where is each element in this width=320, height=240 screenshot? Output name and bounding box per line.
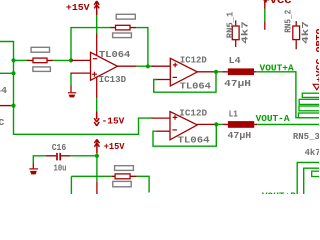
wire op3 feedback loop	[153, 124, 216, 146]
svg-text:L1: L1	[229, 108, 238, 119]
wire C16 to +15V junction	[70, 155, 97, 157]
inductor L1 leads	[223, 123, 258, 125]
resistor bottom R body	[115, 174, 130, 179]
resistor gray outline below bottom R	[113, 181, 131, 186]
svg-text:VOUT-A: VOUT-A	[256, 113, 290, 124]
pin op2 inverting	[156, 79, 170, 81]
capacitor C16 wire from ground	[33, 156, 46, 164]
wire plus input down to ground	[70, 74, 72, 86]
wire +15V junction down	[96, 153, 98, 182]
wire VOUT+A	[257, 72, 319, 118]
op-amp IC13D triangle	[91, 52, 118, 80]
connector pin bar 3	[299, 106, 320, 111]
node junction dot op2 out	[214, 70, 218, 74]
svg-text:47µH: 47µH	[224, 78, 251, 89]
svg-text:TL064: TL064	[180, 81, 212, 92]
pin op1 V-	[96, 77, 98, 98]
svg-text:4k7: 4k7	[240, 21, 251, 44]
supply -15V symbol	[94, 111, 99, 126]
svg-text:+15V: +15V	[66, 2, 90, 13]
node junction dot op1 out	[146, 64, 150, 68]
resistor input R leads	[27, 59, 53, 61]
wire input row to R	[14, 59, 28, 61]
svg-text:C16: C16	[52, 142, 67, 153]
pin op3 output	[197, 123, 215, 125]
op3 minus symbol	[172, 129, 177, 131]
svg-text:VOUT+A: VOUT+A	[260, 63, 294, 74]
pin RN5_1 bottom	[235, 40, 237, 47]
resistor feedback R leads	[111, 27, 137, 29]
pin RN5_2 top	[295, 21, 297, 26]
wire red pin from off-screen part at y105	[0, 105, 11, 107]
pin RN5_2 bottom	[295, 40, 297, 50]
wire feedback loop op1	[71, 28, 111, 61]
svg-text:64: 64	[0, 85, 7, 96]
connector pin bar 4	[298, 113, 320, 118]
wire op2 out to L4	[216, 71, 223, 73]
wire connector2 outer corner	[297, 162, 319, 194]
resistor gray outline above input R	[31, 47, 49, 52]
svg-text:TL064: TL064	[178, 134, 210, 145]
op2 minus symbol	[173, 76, 178, 78]
pin op2 output	[197, 71, 215, 73]
resistor gray outline above bottom R	[115, 166, 134, 171]
wire bottom R to right corner	[137, 176, 150, 192]
svg-text:RN5_1: RN5_1	[224, 11, 235, 38]
inductor L1 body	[228, 121, 254, 128]
wire +15V down	[96, 15, 98, 34]
supply +15V bottom symbol	[94, 139, 99, 153]
pin op1 V+	[96, 34, 98, 56]
wire stub left edge y73	[0, 72, 14, 74]
resistor gray outline below input R	[33, 67, 51, 72]
svg-text:10u: 10u	[54, 163, 67, 174]
svg-text:+VCC: +VCC	[263, 0, 292, 6]
pin off-screen bottom at x97	[96, 182, 98, 194]
node junction dot rail y60	[11, 58, 15, 62]
svg-text:4k7: 4k7	[300, 21, 311, 44]
pin op3 non-inverting	[152, 117, 171, 119]
op3 plus symbol	[173, 115, 178, 120]
svg-text:IC12D: IC12D	[179, 107, 207, 118]
wire +VCC green	[264, 9, 266, 22]
supply +15V top symbol	[94, 1, 99, 15]
resistor bottom R leads	[112, 175, 137, 177]
wire feedback right down to output	[136, 28, 148, 67]
op1 plus symbol	[92, 72, 97, 77]
node junction dot +15V C16	[95, 154, 99, 158]
node junction dot rail y105	[11, 104, 15, 108]
wire VOUT-A	[257, 123, 319, 125]
wire op3 out to L1	[216, 123, 222, 125]
wire op2 feedback loop	[154, 72, 216, 92]
connector pin bar 1	[302, 93, 320, 97]
ground GND C16	[29, 164, 38, 175]
ground GND op1	[68, 86, 76, 98]
resistor gray outline below feedback R	[113, 33, 132, 38]
connector pin bar 2	[299, 99, 320, 104]
svg-text:VOUT+B: VOUT+B	[262, 190, 296, 194]
pin op1 output	[118, 65, 137, 67]
node junction dot rail y73	[11, 71, 15, 75]
wire bottom resistor row	[71, 175, 112, 177]
resistor feedback R body	[116, 25, 131, 30]
pin op1 inverting	[72, 59, 91, 61]
op-amp IC12D top triangle	[170, 58, 197, 86]
svg-text:RN5_2: RN5_2	[283, 10, 294, 33]
pin RN5_1 top	[235, 20, 237, 26]
wire R to inverting junction	[53, 59, 71, 61]
inductor L4 body	[228, 68, 254, 75]
svg-text:IC13D: IC13D	[99, 74, 127, 85]
pin op2 non-inverting	[152, 65, 171, 67]
inductor L4 leads	[223, 71, 257, 73]
connector pin bar 5	[312, 171, 320, 176]
svg-text:-15V: -15V	[102, 116, 125, 127]
op2 plus symbol	[173, 63, 178, 68]
pin op1 non-inverting with corner	[71, 73, 91, 74]
svg-text:+15V: +15V	[104, 141, 125, 152]
capacitor C16 leads	[46, 155, 70, 157]
svg-text:RN5_3: RN5_3	[293, 131, 319, 142]
pin below +VCC	[264, 21, 266, 30]
svg-text:TL064: TL064	[99, 49, 131, 60]
wire op1 out to op2	[137, 65, 154, 67]
resistor gray outline above feedback R	[116, 14, 135, 19]
op1 minus symbol	[93, 58, 98, 60]
capacitor C16 plates	[57, 153, 60, 161]
svg-text:L4: L4	[229, 55, 241, 66]
wire net IN+ left rail	[0, 42, 153, 135]
svg-text:C: C	[0, 117, 5, 128]
wire connector2 inner corner	[304, 168, 319, 194]
wire bottom left vertical	[70, 176, 72, 194]
resistor input R body	[33, 58, 47, 63]
svg-text:+VCC_ORTO: +VCC_ORTO	[314, 28, 319, 82]
op-amp IC12D bottom triangle	[170, 112, 197, 140]
wire V- down	[96, 98, 98, 111]
node junction dot inverting input	[69, 58, 73, 62]
svg-text:IC12D: IC12D	[180, 55, 207, 66]
supply arrow right edge	[313, 84, 320, 90]
resistor network RN5_2 body	[293, 26, 300, 40]
wire green joining pin to rail	[11, 105, 14, 107]
svg-text:47µH: 47µH	[228, 130, 252, 141]
node junction dot op3 out	[214, 122, 218, 126]
svg-text:4k7: 4k7	[305, 147, 319, 158]
pin op3 inverting	[156, 130, 170, 132]
resistor network RN5_1 body	[232, 26, 239, 40]
supply +VCC stem	[264, 0, 266, 9]
